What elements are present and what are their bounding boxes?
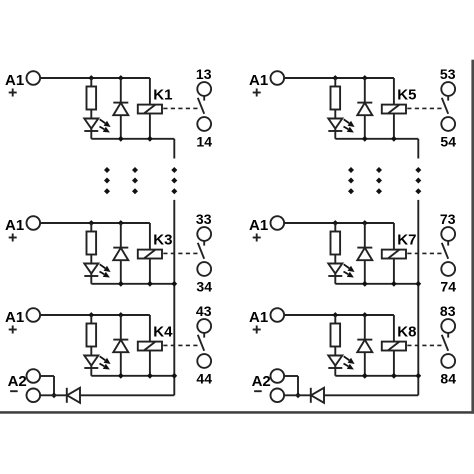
junction bus row2	[415, 281, 421, 287]
svg-text:A2: A2	[252, 373, 271, 390]
contact terminal circle 43	[197, 319, 211, 333]
junction bus row3	[171, 373, 177, 379]
relay coil K4	[138, 342, 162, 351]
terminal circle A1 (unit K3)	[27, 216, 41, 230]
contact terminal circle 54	[441, 117, 455, 131]
svg-text:84: 84	[440, 371, 456, 387]
svg-text:K4: K4	[153, 323, 173, 340]
resistor R4	[90, 315, 92, 324]
contact fixed stub	[447, 241, 449, 246]
contact movable arm	[442, 243, 448, 259]
wire top rail	[40, 77, 150, 79]
wire top rail	[40, 314, 150, 316]
LED emission arrows	[344, 356, 350, 360]
wire bottom rail	[335, 138, 418, 140]
svg-text:A1: A1	[249, 309, 268, 326]
contact fixed stub	[203, 241, 205, 246]
wire A2 upper jog	[284, 375, 298, 377]
terminal circle A1 (unit K4)	[27, 308, 41, 322]
contact terminal circle 14	[197, 117, 211, 131]
svg-text:44: 44	[196, 371, 212, 387]
minus sign	[254, 390, 262, 392]
contact fixed stub	[447, 333, 449, 338]
wire top rail	[40, 222, 150, 224]
contact fixed stub	[203, 96, 205, 101]
ellipsis dots column 3 (bus)	[415, 167, 421, 173]
dashed actuation link K1	[163, 107, 199, 109]
terminal circle A2 lower	[27, 389, 41, 403]
bus wire segment lower	[417, 200, 419, 395]
svg-text:K5: K5	[397, 86, 416, 103]
junction at diode	[362, 220, 368, 226]
plus sign (unit K3)	[9, 237, 17, 239]
contact terminal circle 74	[441, 262, 455, 276]
contact terminal circle 34	[197, 262, 211, 276]
relay coil K7	[382, 250, 406, 259]
resistor R7	[334, 223, 336, 232]
junction relay-bottom	[391, 281, 397, 287]
LED D3a	[90, 255, 92, 264]
terminal circle A2 upper	[27, 369, 41, 383]
freewheel diode D8b	[364, 315, 366, 340]
junction A2 wires	[295, 392, 301, 398]
relay coil K8	[382, 342, 406, 351]
wire relay coil drop	[149, 78, 151, 139]
terminal circle A1 (unit K8)	[271, 308, 285, 322]
terminal circle A2 lower	[271, 389, 285, 403]
bus wire segment upper	[417, 139, 419, 159]
freewheel diode D3b	[120, 223, 122, 248]
wire A2 bottom rail	[284, 394, 311, 396]
junction relay-bottom	[147, 373, 153, 379]
wire relay coil drop	[149, 315, 151, 376]
bus wire segment lower	[173, 200, 175, 395]
wire bottom rail	[91, 283, 174, 285]
svg-text:33: 33	[196, 211, 212, 227]
plus sign (unit K8)	[253, 329, 261, 331]
resistor R8	[334, 315, 336, 324]
contact terminal circle 33	[197, 227, 211, 241]
contact fixed stub	[203, 333, 205, 338]
terminal circle A2 upper	[271, 369, 285, 383]
LED D8a	[334, 347, 336, 356]
plus sign (unit K4)	[9, 329, 17, 331]
dashed actuation link K5	[407, 107, 443, 109]
contact movable arm	[442, 335, 448, 351]
junction at resistor	[88, 312, 94, 318]
wire top rail	[284, 77, 394, 79]
resistor R1	[90, 78, 92, 87]
LED D7a	[334, 255, 336, 264]
junction relay-bottom	[391, 136, 397, 142]
junction at diode	[362, 75, 368, 81]
junction relay-bottom	[147, 136, 153, 142]
wire diode to bus	[324, 394, 418, 396]
svg-text:K7: K7	[397, 231, 416, 248]
dashed actuation link K4	[163, 344, 199, 346]
svg-text:34: 34	[196, 279, 212, 295]
svg-text:K1: K1	[153, 86, 172, 103]
svg-text:73: 73	[440, 211, 456, 227]
wire relay coil drop	[393, 78, 395, 139]
relay coil K5	[382, 105, 406, 114]
junction bus row2	[171, 281, 177, 287]
LED emission arrows	[344, 264, 350, 268]
wire top rail	[284, 314, 394, 316]
ellipsis dots column 1	[104, 167, 110, 173]
ellipsis dots column 2	[132, 167, 138, 173]
resistor R5	[334, 78, 336, 87]
relay coil K1	[138, 105, 162, 114]
contact terminal circle 44	[197, 354, 211, 368]
contact terminal circle 13	[197, 82, 211, 96]
junction relay-bottom	[147, 281, 153, 287]
junction at diode	[118, 312, 124, 318]
svg-text:53: 53	[440, 66, 456, 82]
contact terminal circle 83	[441, 319, 455, 333]
resistor R3	[90, 223, 92, 232]
ellipsis dots column 1	[348, 167, 354, 173]
dashed actuation link K7	[407, 252, 443, 254]
junction at resistor	[332, 220, 338, 226]
LED D4a	[90, 347, 92, 356]
svg-text:13: 13	[196, 66, 212, 82]
LED emission arrows	[100, 119, 106, 123]
svg-text:43: 43	[196, 303, 212, 319]
junction bus row3	[415, 373, 421, 379]
svg-text:A1: A1	[5, 217, 24, 234]
junction diode-bottom	[118, 136, 124, 142]
freewheel diode D7b	[364, 223, 366, 248]
svg-text:A2: A2	[8, 373, 27, 390]
svg-text:54: 54	[440, 134, 456, 150]
contact movable arm	[198, 98, 204, 114]
junction A2 wires	[51, 392, 57, 398]
frame border bottom	[0, 411, 474, 414]
freewheel diode D5b	[364, 78, 366, 103]
reverse-polarity diode	[310, 388, 312, 403]
svg-text:K3: K3	[153, 231, 172, 248]
contact fixed stub	[447, 96, 449, 101]
svg-text:A1: A1	[5, 309, 24, 326]
contact terminal circle 53	[441, 82, 455, 96]
junction diode-bottom	[362, 373, 368, 379]
wire top rail	[284, 222, 394, 224]
junction at diode	[118, 220, 124, 226]
terminal circle A1 (unit K7)	[271, 216, 285, 230]
terminal circle A1 (unit K1)	[27, 71, 41, 85]
svg-text:A1: A1	[249, 217, 268, 234]
LED emission arrows	[344, 119, 350, 123]
svg-text:83: 83	[440, 303, 456, 319]
dashed actuation link K3	[163, 252, 199, 254]
minus sign	[10, 390, 18, 392]
wire A2 bottom rail	[40, 394, 67, 396]
wire bottom rail	[91, 138, 174, 140]
junction diode-bottom	[118, 373, 124, 379]
contact movable arm	[198, 243, 204, 259]
svg-text:K8: K8	[397, 323, 416, 340]
contact terminal circle 84	[441, 354, 455, 368]
junction at resistor	[88, 220, 94, 226]
LED D5a	[334, 110, 336, 119]
ellipsis dots column 2	[376, 167, 382, 173]
plus sign (unit K5)	[253, 92, 261, 94]
wire diode to bus	[80, 394, 174, 396]
svg-text:14: 14	[196, 134, 212, 150]
bus wire segment upper	[173, 139, 175, 159]
LED D1a	[90, 110, 92, 119]
junction at resistor	[88, 75, 94, 81]
junction diode-bottom	[362, 136, 368, 142]
wire relay coil drop	[393, 223, 395, 284]
wire relay coil drop	[393, 315, 395, 376]
junction at resistor	[332, 312, 338, 318]
wire bottom rail	[335, 283, 418, 285]
wire bottom rail	[91, 375, 174, 377]
reverse-polarity diode	[66, 388, 68, 403]
plus sign (unit K7)	[253, 237, 261, 239]
svg-text:74: 74	[440, 279, 456, 295]
ellipsis dots column 3 (bus)	[171, 167, 177, 173]
terminal circle A1 (unit K5)	[271, 71, 285, 85]
relay coil K3	[138, 250, 162, 259]
freewheel diode D4b	[120, 315, 122, 340]
contact movable arm	[198, 335, 204, 351]
plus sign (unit K1)	[9, 92, 17, 94]
wire bottom rail	[335, 375, 418, 377]
frame border right	[471, 60, 474, 414]
freewheel diode D1b	[120, 78, 122, 103]
LED emission arrows	[100, 356, 106, 360]
wire A2 upper jog	[40, 375, 54, 377]
junction at diode	[118, 75, 124, 81]
contact movable arm	[442, 98, 448, 114]
junction diode-bottom	[362, 281, 368, 287]
contact terminal circle 73	[441, 227, 455, 241]
svg-text:A1: A1	[5, 72, 24, 89]
svg-text:A1: A1	[249, 72, 268, 89]
junction at diode	[362, 312, 368, 318]
wire relay coil drop	[149, 223, 151, 284]
junction relay-bottom	[391, 373, 397, 379]
junction at resistor	[332, 75, 338, 81]
junction diode-bottom	[118, 281, 124, 287]
dashed actuation link K8	[407, 344, 443, 346]
LED emission arrows	[100, 264, 106, 268]
